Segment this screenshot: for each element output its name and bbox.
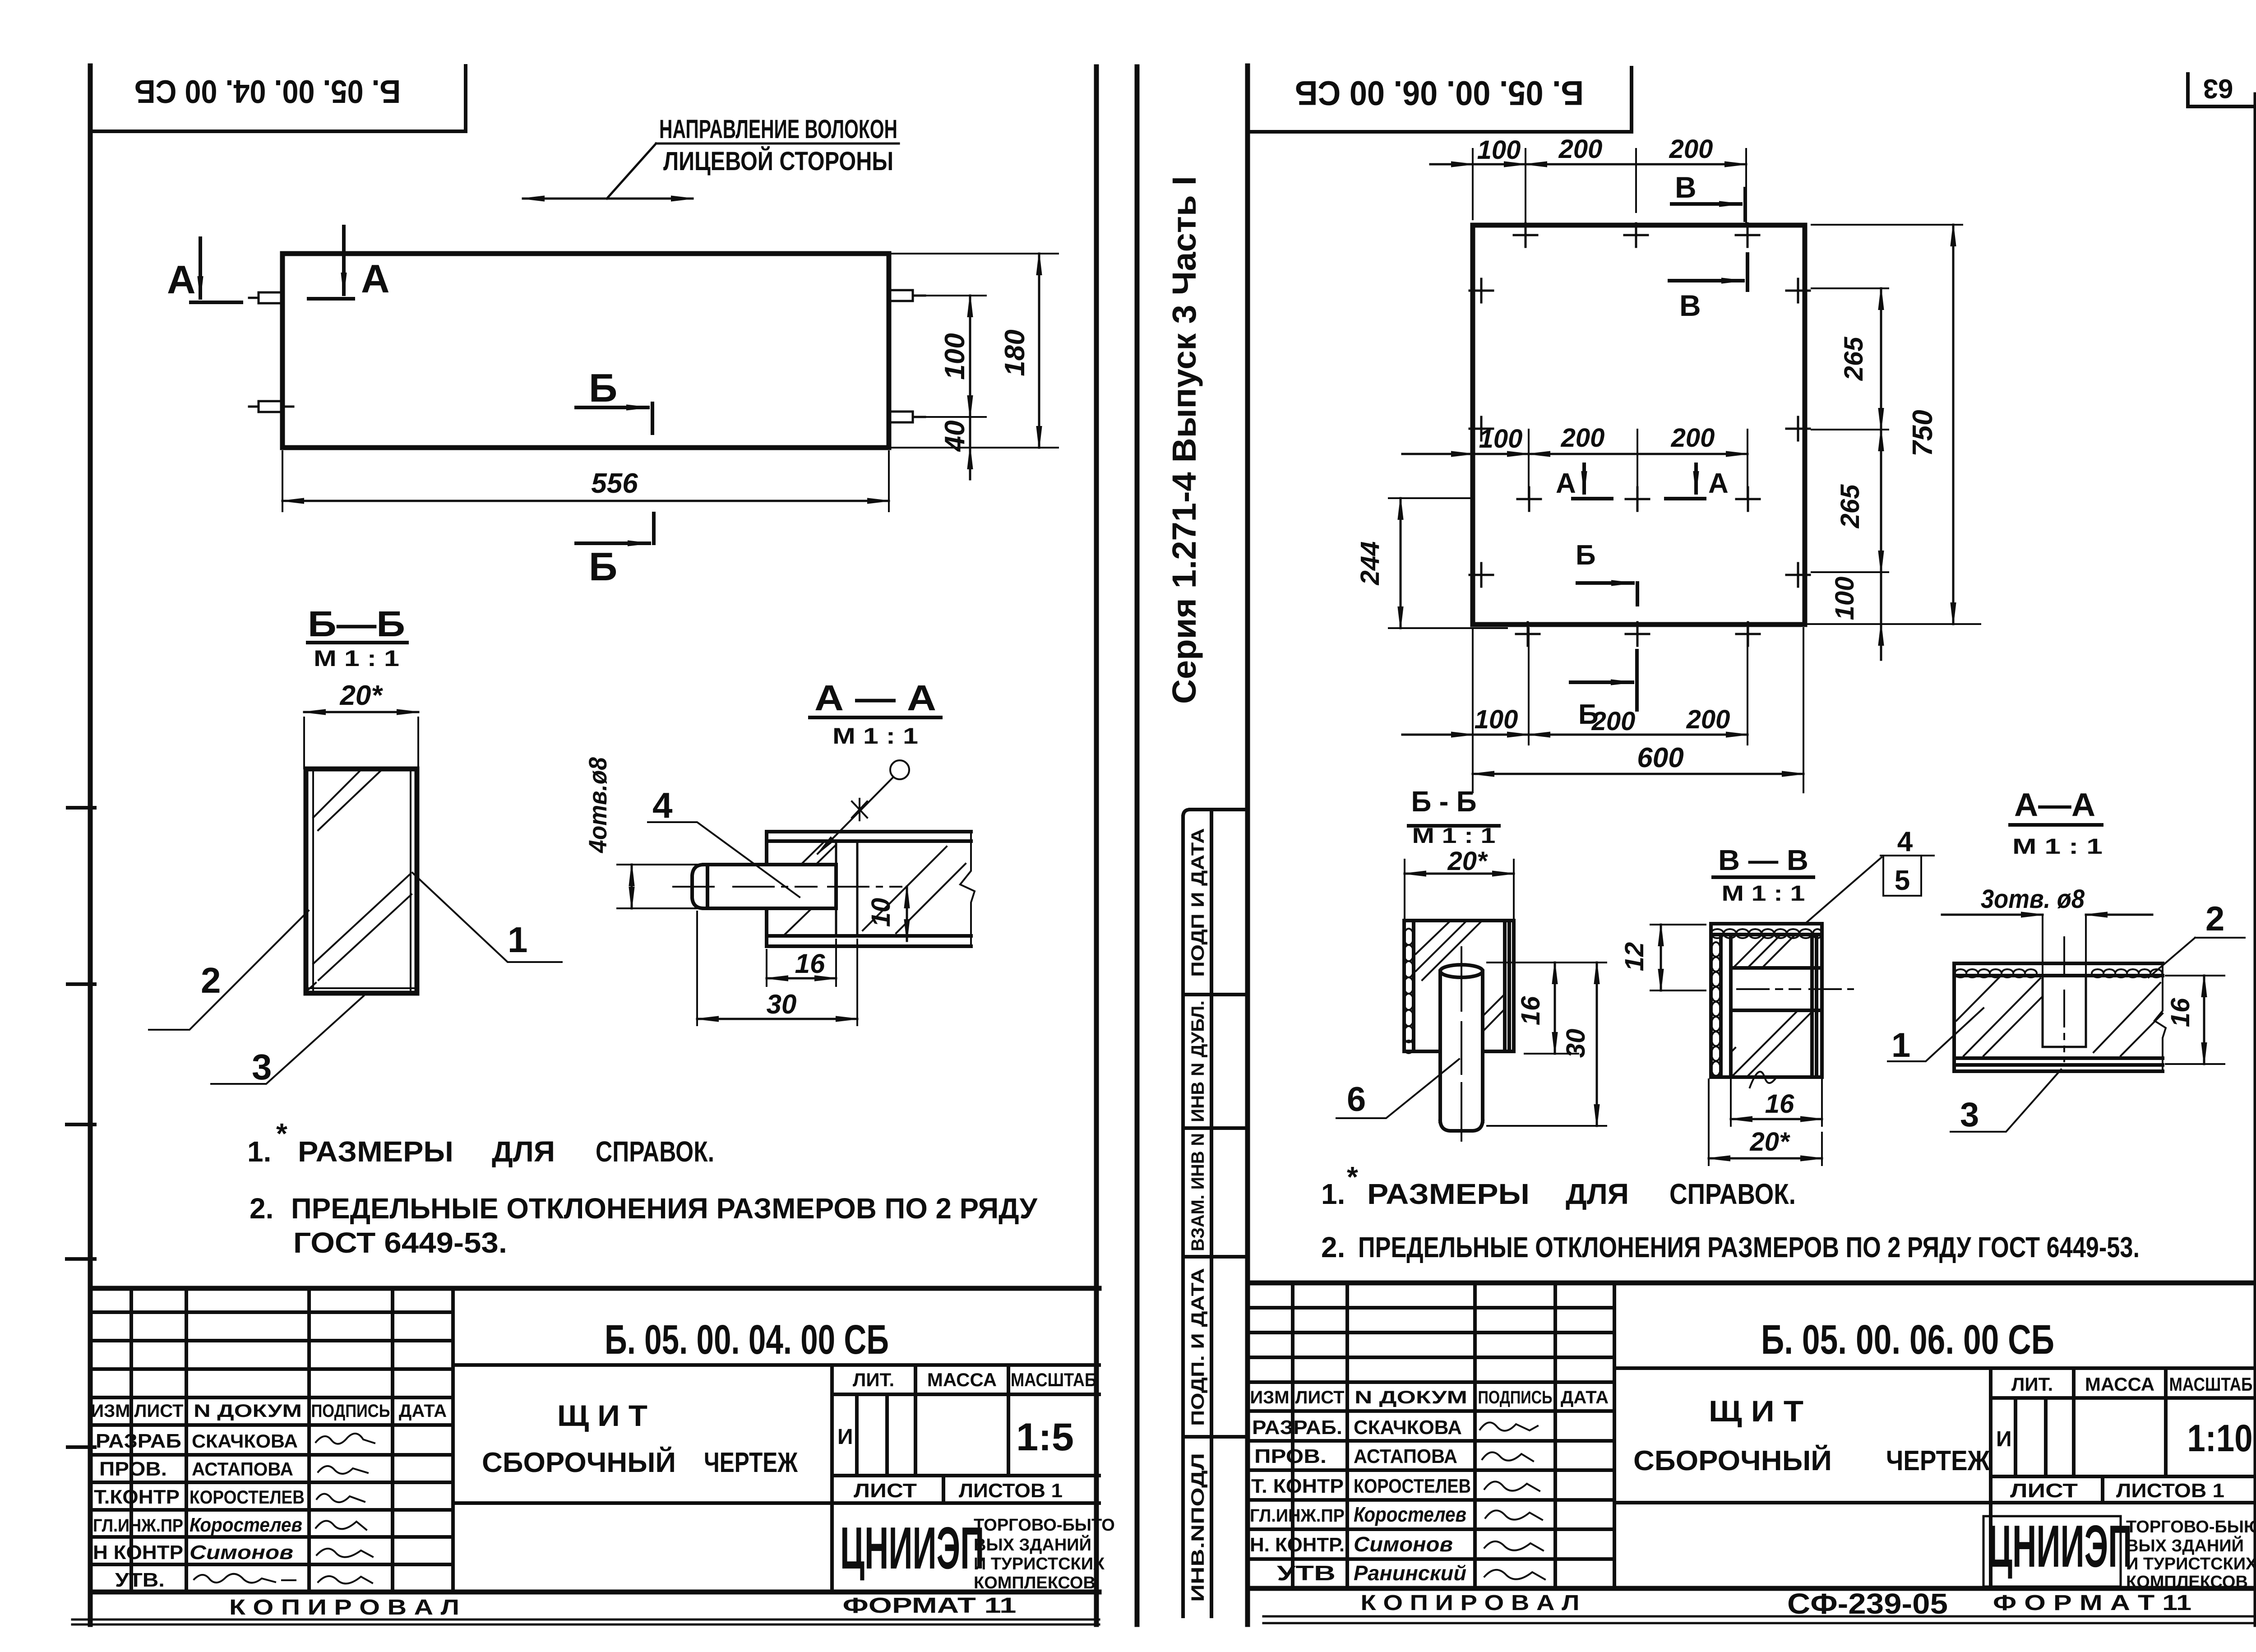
svg-text:20*: 20* <box>1447 847 1488 876</box>
svg-text:10: 10 <box>866 898 896 927</box>
fiber leader <box>607 143 656 199</box>
V-V hatch upper <box>1734 935 1795 967</box>
svg-text:ПОДПИСЬ: ПОДПИСЬ <box>311 1401 390 1421</box>
svg-text:3отв. ø8: 3отв. ø8 <box>1981 884 2085 914</box>
svg-text:200: 200 <box>1561 423 1605 453</box>
svg-text:РАЗРАБ: РАЗРАБ <box>96 1430 181 1452</box>
right left table horizontals <box>1248 1308 1614 1559</box>
svg-text:Б: Б <box>1576 540 1596 571</box>
svg-text:Н. КОНТР.: Н. КОНТР. <box>1250 1534 1345 1556</box>
right sheet right border inner <box>2254 95 2256 1624</box>
svg-text:200: 200 <box>1591 707 1636 736</box>
right sheet paper edge <box>1135 67 1140 1624</box>
svg-text:556: 556 <box>591 468 638 499</box>
screw left top <box>249 292 282 303</box>
svg-text:ГОСТ 6449-53.: ГОСТ 6449-53. <box>293 1226 507 1259</box>
svg-text:ПОДП. И ДАТА: ПОДП. И ДАТА <box>1188 1268 1208 1426</box>
svg-text:ИНВ N ДУБЛ.: ИНВ N ДУБЛ. <box>1188 1000 1208 1122</box>
B-B body <box>1404 921 1514 1051</box>
svg-text:1: 1 <box>508 920 528 960</box>
svg-text:М 1 : 1: М 1 : 1 <box>2012 835 2103 859</box>
svg-text:30: 30 <box>1561 1029 1590 1058</box>
svg-text:265: 265 <box>1835 484 1865 529</box>
svg-text:ЧЕРТЕЖ: ЧЕРТЕЖ <box>1886 1445 1990 1476</box>
svg-text:ПРЕДЕЛЬНЫЕ ОТКЛОНЕНИЯ РАЗМЕР: ПРЕДЕЛЬНЫЕ ОТКЛОНЕНИЯ РАЗМЕРОВ ПО 2 РЯДУ <box>291 1192 1038 1225</box>
right V-V section <box>1620 826 1934 1165</box>
svg-text:1.: 1. <box>1321 1178 1345 1210</box>
svg-text:200: 200 <box>1558 134 1603 164</box>
section mark V inner <box>1669 279 1743 282</box>
svg-text:16: 16 <box>2166 998 2195 1027</box>
svg-text:В: В <box>1679 289 1701 322</box>
svg-text:ДАТА: ДАТА <box>1561 1388 1609 1407</box>
right title block <box>1248 1283 2256 1623</box>
bottom double line <box>72 1620 1099 1624</box>
svg-text:750: 750 <box>1907 410 1938 456</box>
svg-text:Ранинский: Ранинский <box>1354 1561 1466 1585</box>
svg-text:ДЛЯ: ДЛЯ <box>1566 1178 1629 1210</box>
B-B section body <box>306 769 417 993</box>
svg-text:Т.КОНТР: Т.КОНТР <box>94 1486 180 1508</box>
right B-B section <box>1336 785 1606 1141</box>
leader 2 <box>149 911 309 1030</box>
svg-text:М 1 : 1: М 1 : 1 <box>1412 824 1496 848</box>
svg-text:ЛИСТ: ЛИСТ <box>2010 1480 2078 1502</box>
svg-text:СФ-239-05: СФ-239-05 <box>1787 1587 1948 1620</box>
svg-text:3: 3 <box>252 1047 272 1087</box>
dim 16 right B-B <box>1487 963 1606 1054</box>
svg-text:В — В: В — В <box>1718 844 1808 876</box>
fiber double arrow <box>523 198 693 200</box>
plate rectangle <box>1473 225 1805 625</box>
svg-text:МАССА: МАССА <box>2085 1374 2154 1395</box>
dim 30 A-A <box>697 912 857 1025</box>
svg-text:И ТУРИСТСКИХ: И ТУРИСТСКИХ <box>974 1555 1105 1573</box>
A-A plate block <box>767 832 971 946</box>
svg-text:М 1 : 1: М 1 : 1 <box>832 723 918 749</box>
svg-text:КОМПЛЕКСОВ: КОМПЛЕКСОВ <box>2126 1573 2248 1592</box>
left table verticals <box>131 1288 453 1592</box>
svg-text:КОРОСТЕЛЕВ: КОРОСТЕЛЕВ <box>190 1486 305 1508</box>
plate hole crosses <box>1514 223 1537 247</box>
svg-text:УТВ.: УТВ. <box>115 1569 165 1591</box>
svg-text:ЛИЦЕВОЙ СТОРОНЫ: ЛИЦЕВОЙ СТОРОНЫ <box>663 147 893 176</box>
A-A hatch <box>783 841 966 936</box>
svg-text:ИНВ.NПОДЛ: ИНВ.NПОДЛ <box>1188 1453 1208 1602</box>
svg-text:СКАЧКОВА: СКАЧКОВА <box>192 1430 298 1452</box>
right sheet left border <box>1245 66 1250 1624</box>
svg-text:В: В <box>1675 171 1697 204</box>
svg-text:ЛИСТОВ 1: ЛИСТОВ 1 <box>2116 1480 2224 1502</box>
weld flag circle <box>890 760 909 779</box>
svg-text:А: А <box>1708 468 1729 499</box>
svg-text:2: 2 <box>201 960 221 1000</box>
right title block frame top <box>1248 1281 2256 1286</box>
svg-text:Б. 05. 00. 06. 00 СБ: Б. 05. 00. 06. 00 СБ <box>1295 74 1584 112</box>
svg-text:А: А <box>167 257 196 302</box>
svg-text:А: А <box>1556 468 1576 499</box>
A-A hole <box>2043 976 2086 1047</box>
right side dims ticks <box>1805 225 1980 624</box>
dim 244 <box>1389 498 1507 628</box>
dim 600 <box>1473 628 1803 792</box>
section mark A right (plate) <box>1694 464 1698 493</box>
svg-text:Б. 05. 00. 04. 00 СБ: Б. 05. 00. 04. 00 СБ <box>134 73 401 109</box>
right title area lines <box>1614 1368 2256 1588</box>
dim 265 lower <box>1880 430 1882 572</box>
right left table verticals <box>1293 1283 1614 1588</box>
svg-text:Б - Б: Б - Б <box>1411 785 1477 818</box>
dim 100 right side <box>918 296 986 417</box>
svg-text:И ТУРИСТСКИХ: И ТУРИСТСКИХ <box>2126 1555 2256 1573</box>
svg-text:Щ И Т: Щ И Т <box>1709 1394 1803 1428</box>
svg-text:16: 16 <box>795 949 825 979</box>
svg-text:20*: 20* <box>1749 1127 1790 1157</box>
svg-text:Серия 1.271-4 Выпуск 3 Час: Серия 1.271-4 Выпуск 3 Часть I <box>1165 176 1203 704</box>
svg-text:Коростелев: Коростелев <box>190 1514 302 1536</box>
right bottom double line <box>1263 1616 2256 1623</box>
svg-text:И: И <box>1996 1427 2012 1451</box>
svg-text:А: А <box>361 256 390 301</box>
svg-text:2.: 2. <box>250 1192 273 1225</box>
dim 16 right A-A <box>2166 976 2224 1064</box>
title block frame top <box>90 1286 1099 1291</box>
side column strip <box>1183 810 1248 1616</box>
dim 180 right side <box>889 254 1058 448</box>
svg-text:ЦНИИЭП: ЦНИИЭП <box>840 1514 984 1581</box>
A-A top chip strip <box>1955 969 2162 977</box>
svg-text:И: И <box>837 1425 853 1449</box>
dim 750 <box>1952 225 1955 624</box>
left sheet right border <box>1094 67 1099 1624</box>
svg-text:100: 100 <box>1479 424 1523 453</box>
stamp box right sheet <box>1248 68 1632 132</box>
B-B hatch lower <box>307 875 411 991</box>
V-V top chip strip <box>1711 929 1822 938</box>
svg-text:ЦНИИЭП: ЦНИИЭП <box>1988 1513 2132 1579</box>
svg-text:ДЛЯ: ДЛЯ <box>492 1135 555 1168</box>
V-V body <box>1711 924 1822 1077</box>
svg-text:Симонов: Симонов <box>1354 1532 1453 1556</box>
svg-text:УТВ: УТВ <box>1277 1561 1336 1585</box>
svg-text:265: 265 <box>1839 337 1868 381</box>
svg-text:100: 100 <box>1830 577 1859 620</box>
svg-text:К О П И Р О В А Л: К О П И Р О В А Л <box>1361 1591 1580 1615</box>
left sheet border line <box>88 66 93 1624</box>
bottom dim row 100/200/200 <box>1529 628 1747 745</box>
svg-text:180: 180 <box>999 329 1031 376</box>
title block bottom <box>90 1590 1099 1595</box>
pin center line <box>673 886 901 888</box>
right A-A section <box>1888 787 2245 1134</box>
svg-text:100: 100 <box>1477 135 1521 165</box>
dim 265 upper <box>1880 288 1882 430</box>
svg-text:Б. 05. 00. 04. 00 СБ: Б. 05. 00. 04. 00 СБ <box>605 1317 889 1363</box>
svg-text:100: 100 <box>1475 705 1518 734</box>
A-A plate right break <box>960 832 975 946</box>
svg-text:ЧЕРТЕЖ: ЧЕРТЕЖ <box>704 1447 798 1478</box>
svg-text:Коростелев: Коростелев <box>1354 1503 1466 1526</box>
svg-text:ЛИСТ: ЛИСТ <box>1295 1388 1344 1407</box>
svg-text:ТОРГОВО-БЫТО: ТОРГОВО-БЫТО <box>974 1516 1115 1535</box>
svg-text:ГЛ.ИНЖ.ПР: ГЛ.ИНЖ.ПР <box>93 1516 183 1536</box>
screw right bottom <box>889 412 925 422</box>
pin 4 <box>692 865 836 908</box>
pin dia dim lines <box>617 865 697 908</box>
svg-text:4: 4 <box>1897 826 1913 857</box>
big title area vertical <box>451 1288 455 1592</box>
A-A hatch left <box>1956 977 2043 1056</box>
dim 100 right <box>1880 572 1882 624</box>
dim 20* V-V <box>1709 1079 1822 1165</box>
svg-text:РАЗРАБ.: РАЗРАБ. <box>1252 1416 1342 1439</box>
A-A right break <box>2154 963 2166 1071</box>
svg-text:Б: Б <box>589 544 617 589</box>
dim 16 V-V <box>1731 1019 1822 1126</box>
leader 1 <box>412 873 562 962</box>
svg-text:Н КОНТР: Н КОНТР <box>93 1541 183 1564</box>
right TsNIIEP logo <box>1983 1516 2121 1587</box>
svg-text:1:10: 1:10 <box>2187 1417 2253 1459</box>
svg-text:200: 200 <box>1669 134 1713 164</box>
svg-text:СПРАВОК.: СПРАВОК. <box>596 1135 714 1168</box>
V-V break squiggle <box>1750 1072 1777 1087</box>
V-V hatch lower <box>1732 1012 1811 1076</box>
svg-text:М 1 : 1: М 1 : 1 <box>1722 882 1805 906</box>
svg-text:16: 16 <box>1765 1089 1794 1119</box>
svg-text:РАЗМЕРЫ: РАЗМЕРЫ <box>298 1135 453 1168</box>
B-B chipboard circles <box>1404 929 1414 1053</box>
svg-text:КОМПЛЕКСОВ: КОМПЛЕКСОВ <box>974 1573 1096 1592</box>
svg-text:ЛИСТ: ЛИСТ <box>134 1401 183 1421</box>
svg-text:ДАТА: ДАТА <box>399 1401 447 1421</box>
svg-text:ИЗМ: ИЗМ <box>1250 1388 1289 1407</box>
screw right top <box>889 290 925 301</box>
svg-text:1:5: 1:5 <box>1016 1416 1074 1459</box>
svg-text:К О П И Р О В А Л: К О П И Р О В А Л <box>229 1596 459 1620</box>
svg-text:1.: 1. <box>247 1135 271 1168</box>
A-A bolt center line <box>2063 937 2065 1061</box>
A-A body <box>1954 963 2163 1071</box>
svg-text:ЛИТ.: ЛИТ. <box>2011 1374 2053 1395</box>
section mark B bottom <box>576 541 649 545</box>
svg-text:600: 600 <box>1637 742 1683 773</box>
dim 556 bottom <box>282 451 889 511</box>
svg-text:ЛИСТОВ 1: ЛИСТОВ 1 <box>959 1480 1063 1502</box>
svg-text:Т. КОНТР: Т. КОНТР <box>1251 1475 1344 1497</box>
V-V center line <box>1737 988 1853 990</box>
svg-text:КОРОСТЕЛЕВ: КОРОСТЕЛЕВ <box>1354 1475 1471 1497</box>
svg-text:ЛИТ.: ЛИТ. <box>853 1369 894 1390</box>
svg-text:СКАЧКОВА: СКАЧКОВА <box>1354 1416 1462 1439</box>
B-B hatch <box>1416 922 1505 1030</box>
svg-text:МАССА: МАССА <box>927 1369 997 1390</box>
svg-text:*: * <box>1347 1161 1358 1193</box>
svg-text:НАПРАВЛЕНИЕ ВОЛОКОН: НАПРАВЛЕНИЕ ВОЛОКОН <box>659 115 897 144</box>
svg-text:ПРОВ.: ПРОВ. <box>99 1458 167 1480</box>
left table horizontals <box>90 1312 453 1564</box>
MIDDLE DIVIDER <box>1096 67 1203 1624</box>
svg-text:ПОДП И ДАТА: ПОДП И ДАТА <box>1188 828 1208 977</box>
svg-text:М 1 : 1: М 1 : 1 <box>314 646 399 671</box>
V-V left chip strip <box>1711 942 1720 1076</box>
svg-text:МАСШТАБ: МАСШТАБ <box>1011 1369 1096 1390</box>
dim 10 <box>906 887 908 941</box>
svg-text:ПРЕДЕЛЬНЫЕ ОТКЛОНЕНИЯ РАЗМЕРО: ПРЕДЕЛЬНЫЕ ОТКЛОНЕНИЯ РАЗМЕРОВ ПО 2 РЯДУ… <box>1358 1231 2140 1263</box>
svg-text:АСТАПОВА: АСТАПОВА <box>192 1458 293 1480</box>
svg-text:3: 3 <box>1960 1096 1979 1134</box>
svg-text:Симонов: Симонов <box>190 1541 293 1564</box>
title area lines <box>453 1365 1099 1592</box>
svg-text:244: 244 <box>1355 541 1385 586</box>
RIGHT SHEET <box>1183 66 2256 1624</box>
svg-text:ПРОВ.: ПРОВ. <box>1254 1445 1327 1467</box>
svg-text:16: 16 <box>1516 996 1545 1025</box>
svg-text:СБОРОЧНЫЙ: СБОРОЧНЫЙ <box>1633 1445 1832 1476</box>
svg-text:30: 30 <box>767 989 797 1019</box>
svg-text:ФОРМАТ 11: ФОРМАТ 11 <box>843 1594 1017 1618</box>
svg-text:Б. 05. 00. 06. 00 СБ: Б. 05. 00. 06. 00 СБ <box>1761 1317 2054 1363</box>
LEFT SHEET <box>67 66 1115 1624</box>
svg-text:200: 200 <box>1671 423 1715 453</box>
svg-text:Б—Б: Б—Б <box>308 604 405 644</box>
svg-text:ГЛ.ИНЖ.ПР: ГЛ.ИНЖ.ПР <box>1250 1506 1345 1526</box>
svg-text:А—А: А—А <box>2014 787 2095 823</box>
svg-text:СПРАВОК.: СПРАВОК. <box>1669 1178 1796 1210</box>
bolt 6 <box>1440 971 1483 1131</box>
svg-text:N ДОКУМ: N ДОКУМ <box>1355 1388 1467 1407</box>
svg-text:СБОРОЧНЫЙ: СБОРОЧНЫЙ <box>482 1447 676 1478</box>
right big area vertical <box>1613 1283 1616 1588</box>
svg-text:12: 12 <box>1620 942 1649 972</box>
svg-text:ЛИСТ: ЛИСТ <box>854 1480 917 1502</box>
svg-text:ВЗАМ. ИНВ N: ВЗАМ. ИНВ N <box>1188 1133 1208 1251</box>
svg-text:Ф О Р М А Т 11: Ф О Р М А Т 11 <box>1993 1591 2191 1615</box>
B-B hatch upper <box>313 770 382 830</box>
svg-text:2: 2 <box>2205 900 2224 938</box>
svg-text:63: 63 <box>2203 74 2233 104</box>
left border fold ticks <box>67 808 95 1447</box>
svg-text:ВЫХ ЗДАНИЙ: ВЫХ ЗДАНИЙ <box>2126 1535 2244 1555</box>
panel rectangle (main view) <box>282 254 889 448</box>
svg-text:Б: Б <box>589 366 617 410</box>
section mark B lower (plate) <box>1571 680 1632 684</box>
svg-text:МАСШТАБ: МАСШТАБ <box>2169 1374 2253 1395</box>
dim 30 right B-B <box>1487 1125 1606 1127</box>
svg-text:РАЗМЕРЫ: РАЗМЕРЫ <box>1367 1178 1530 1210</box>
dim 40 right side <box>969 417 971 448</box>
svg-text:Щ И Т: Щ И Т <box>557 1399 647 1432</box>
page number 63 box <box>2188 74 2256 106</box>
right title block bottom <box>1248 1586 2256 1591</box>
V-V shelf bar <box>1731 968 1822 1010</box>
svg-text:4отв.ø8: 4отв.ø8 <box>583 757 612 853</box>
svg-text:4: 4 <box>652 785 673 825</box>
svg-text:20*: 20* <box>339 680 383 711</box>
svg-text:*: * <box>276 1117 287 1150</box>
svg-text:200: 200 <box>1686 705 1730 734</box>
svg-text:5: 5 <box>1895 865 1910 896</box>
top dim row 100/200/200 <box>1473 149 1746 226</box>
svg-text:А — А: А — А <box>814 678 936 718</box>
dim 12 <box>1650 925 1706 990</box>
left title block <box>72 1288 1115 1624</box>
dim 16 A-A <box>767 939 836 986</box>
mid dim row 100/200/200 <box>1529 430 1747 499</box>
svg-text:ИЗМ: ИЗМ <box>91 1401 130 1421</box>
svg-text:ВЫХ ЗДАНИЙ: ВЫХ ЗДАНИЙ <box>974 1534 1091 1555</box>
svg-text:1: 1 <box>1891 1026 1910 1064</box>
leader 3 <box>211 996 364 1084</box>
svg-text:6: 6 <box>1347 1080 1366 1119</box>
svg-text:100: 100 <box>939 333 971 379</box>
svg-text:2.: 2. <box>1321 1231 1345 1263</box>
svg-text:АСТАПОВА: АСТАПОВА <box>1354 1445 1457 1467</box>
svg-text:ПОДПИСЬ: ПОДПИСЬ <box>1478 1388 1553 1407</box>
svg-text:ТОРГОВО-БЫЮ: ТОРГОВО-БЫЮ <box>2126 1518 2256 1536</box>
stamp box top-left <box>90 66 466 131</box>
screw left bottom <box>249 401 293 412</box>
svg-text:N ДОКУМ: N ДОКУМ <box>194 1401 302 1421</box>
A-A hatch right <box>2094 983 2163 1056</box>
A-A hole walls <box>836 841 857 936</box>
